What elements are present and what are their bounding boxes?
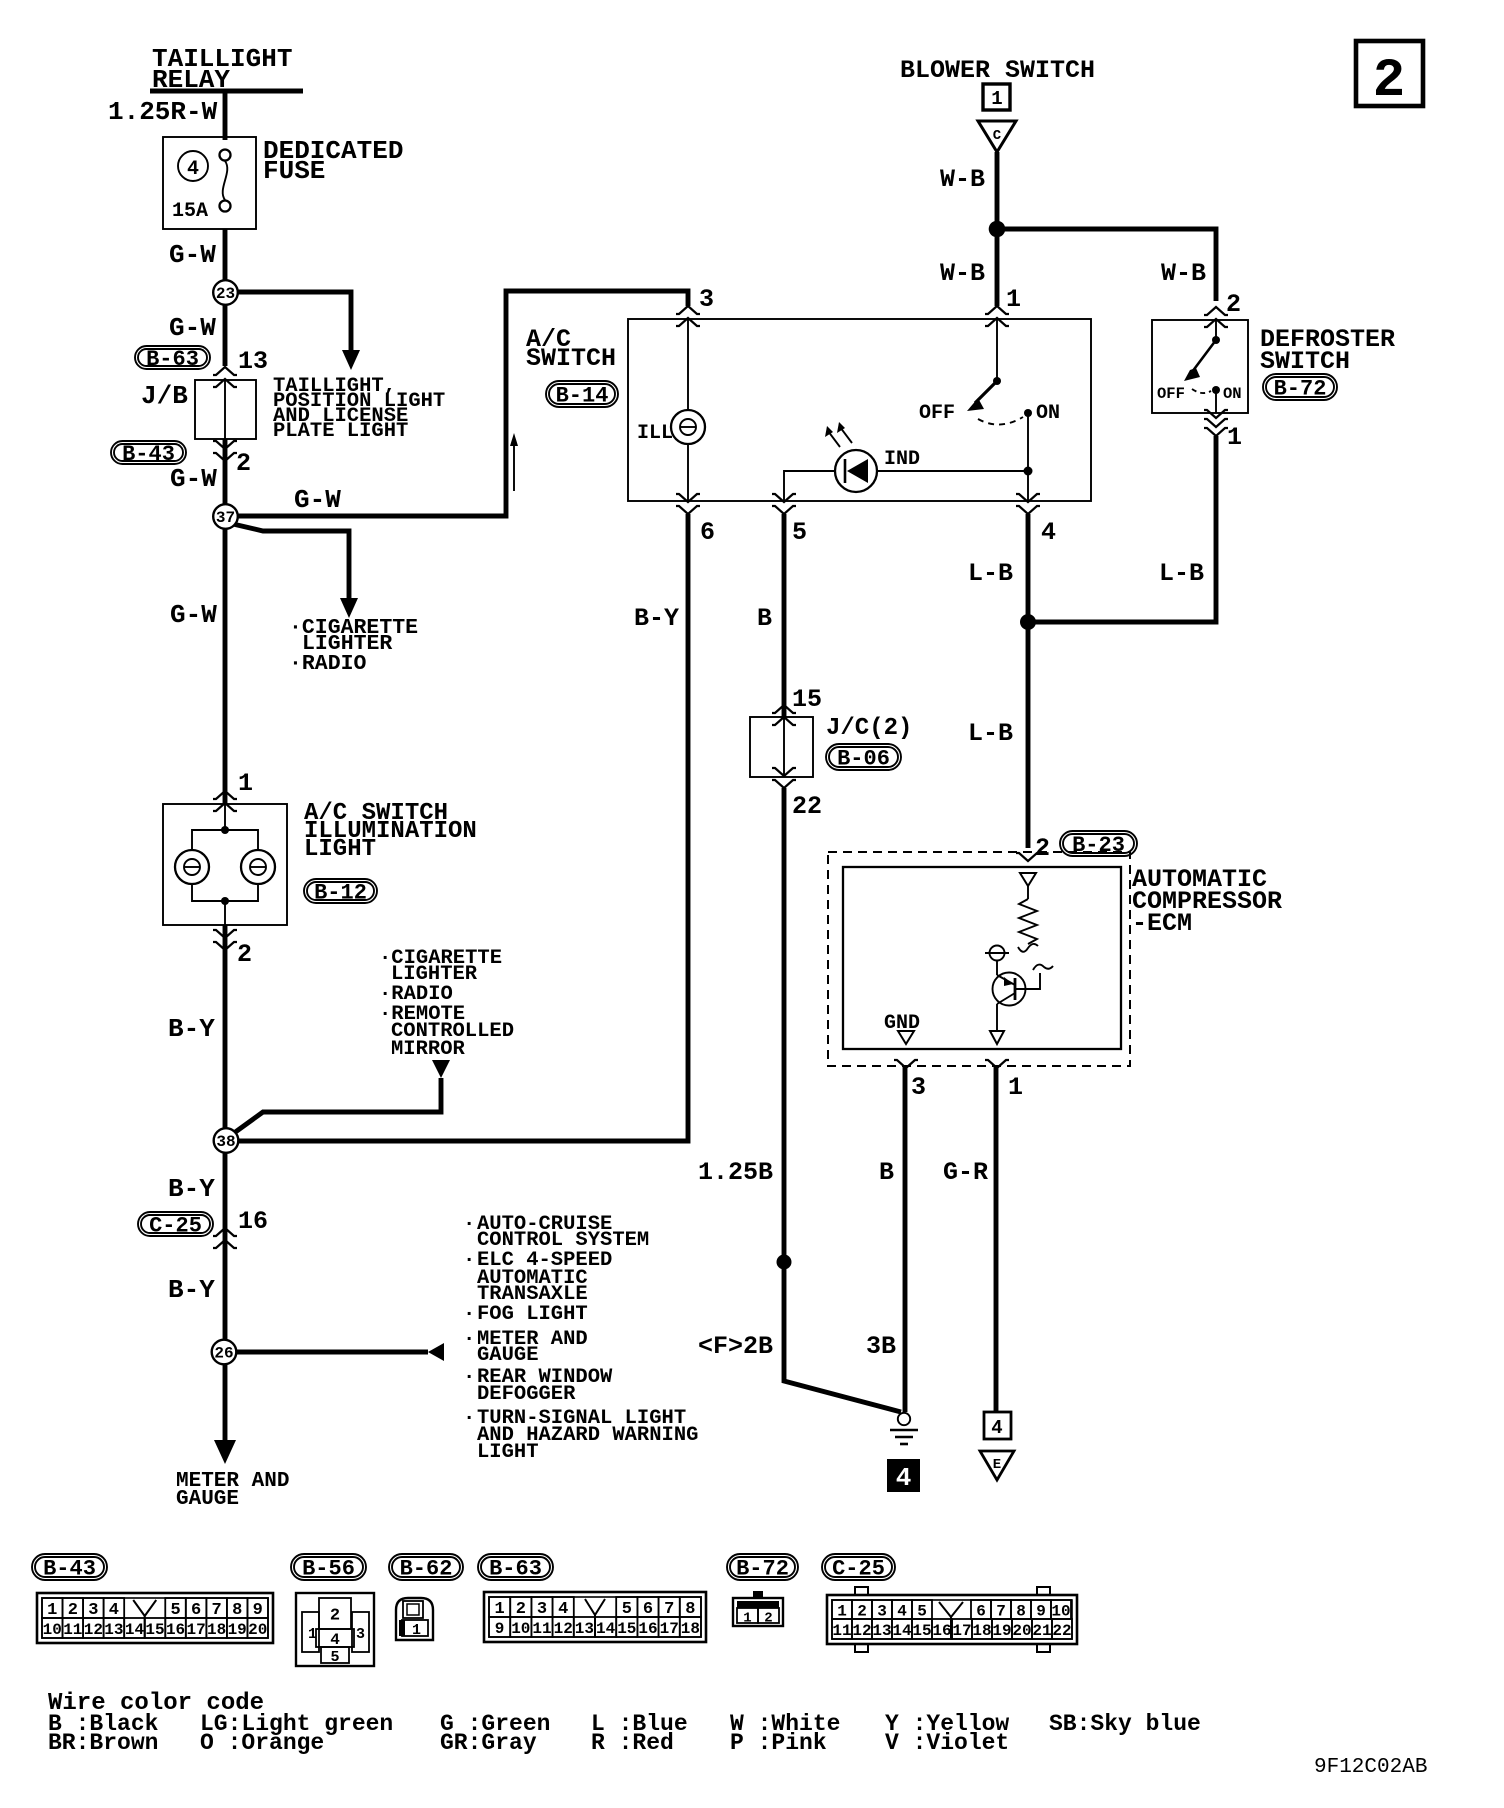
GND triangle	[898, 1031, 914, 1044]
svg-text:BLOWER SWITCH: BLOWER SWITCH	[900, 56, 1095, 85]
wire B-Y splice 38 to splice 26	[223, 1152, 228, 1340]
svg-text:38: 38	[216, 1133, 235, 1151]
svg-text:B-62: B-62	[400, 1557, 453, 1582]
svg-text:10: 10	[511, 1620, 530, 1638]
svg-text:14: 14	[596, 1620, 616, 1638]
wire 1.25B from J/C pin 22	[784, 788, 901, 1412]
svg-text:12: 12	[554, 1620, 573, 1638]
fuse element	[220, 150, 231, 161]
svg-text:2: 2	[1035, 834, 1050, 863]
connector tag B-63	[135, 346, 210, 369]
svg-text:OFF: OFF	[919, 402, 955, 425]
svg-text:4: 4	[991, 1417, 1002, 1439]
svg-text:E: E	[993, 1457, 1001, 1473]
svg-text:37: 37	[216, 509, 235, 527]
illumination lamp left	[175, 850, 209, 884]
branch wire to meter and gauge list	[236, 1350, 428, 1355]
svg-text:2: 2	[1226, 290, 1241, 319]
J/C pin 22 chevrons	[772, 768, 796, 776]
svg-text:13: 13	[238, 347, 268, 376]
A/C switch illumination light box	[163, 804, 287, 925]
arrow to taillight loads	[342, 350, 360, 370]
svg-text:O :Orange: O :Orange	[200, 1730, 324, 1756]
wire L-B defroster to junction	[1035, 436, 1216, 622]
svg-text:B-56: B-56	[302, 1557, 355, 1582]
junction block J/B	[195, 380, 256, 439]
defroster pin 1 chevrons	[1204, 410, 1228, 418]
svg-text:LIGHT: LIGHT	[477, 1441, 539, 1464]
svg-text:2: 2	[236, 449, 251, 478]
svg-text:12: 12	[852, 1622, 871, 1640]
svg-text:11: 11	[532, 1620, 551, 1638]
wire B-Y illumination to splice 38	[223, 925, 228, 1129]
svg-text:G-W: G-W	[170, 600, 217, 630]
defroster switch box B-72	[1152, 320, 1248, 413]
resistor break squiggle	[1018, 944, 1038, 952]
svg-text:1: 1	[991, 88, 1002, 110]
pin 5 chevrons	[772, 494, 796, 502]
svg-text:3: 3	[911, 1073, 926, 1102]
svg-text:1: 1	[1008, 1073, 1023, 1102]
svg-text:B-Y: B-Y	[168, 1275, 215, 1305]
pin 4 chevrons	[1016, 494, 1040, 502]
dashed arc OFF-ON	[978, 417, 1023, 425]
connector B-56 pinout	[296, 1593, 374, 1666]
svg-text:5: 5	[792, 518, 807, 547]
connector tag B-14	[546, 381, 618, 407]
svg-text:C-25: C-25	[832, 1557, 885, 1582]
ON contact dot	[1024, 409, 1032, 417]
svg-text:9F12C02AB: 9F12C02AB	[1314, 1756, 1427, 1779]
resistor	[1019, 899, 1037, 944]
wire B-Y pin 6 to splice 38	[239, 514, 688, 1141]
svg-text:L-B: L-B	[1159, 559, 1204, 588]
svg-text:21: 21	[1032, 1622, 1051, 1640]
connector tag C-25	[138, 1212, 213, 1236]
svg-text:12: 12	[84, 1621, 103, 1639]
svg-text:5: 5	[330, 1649, 339, 1666]
svg-text:17: 17	[952, 1622, 971, 1640]
svg-text:13: 13	[104, 1621, 123, 1639]
svg-text:4: 4	[897, 1603, 907, 1621]
connector tag B-63 (bottom)	[478, 1554, 553, 1580]
svg-text:G-W: G-W	[169, 240, 216, 270]
svg-text:FOG LIGHT: FOG LIGHT	[477, 1303, 588, 1326]
svg-text:·: ·	[463, 1366, 475, 1389]
connector tag B-12	[304, 879, 377, 903]
svg-text:2: 2	[857, 1603, 867, 1621]
svg-text:B-43: B-43	[122, 442, 175, 467]
svg-text:19: 19	[992, 1622, 1011, 1640]
connector tag B-06	[826, 744, 901, 770]
branch wire to taillight loads	[236, 292, 351, 352]
svg-text:G-W: G-W	[170, 464, 217, 494]
svg-text:16: 16	[238, 1207, 268, 1236]
svg-text:-ECM: -ECM	[1132, 909, 1192, 938]
svg-text:J/B: J/B	[141, 381, 188, 411]
pressure switch symbol	[990, 946, 1005, 961]
connector triangle C	[978, 121, 1016, 152]
wire G-W splice 23 to J/B	[223, 305, 228, 366]
svg-text:11: 11	[63, 1621, 82, 1639]
C-25 polarizing V	[939, 1602, 963, 1617]
connector tag B-72	[1263, 374, 1337, 400]
wire to meter and gauge	[223, 1364, 228, 1442]
wire B pin 5 to J/C	[782, 514, 787, 717]
svg-text:8: 8	[1016, 1603, 1026, 1621]
svg-text:6: 6	[976, 1603, 986, 1621]
splice 26	[212, 1340, 237, 1365]
svg-text:23: 23	[216, 285, 235, 303]
svg-text:3B: 3B	[866, 1332, 896, 1361]
defroster ON dot	[1212, 386, 1220, 394]
branch wire to remote mirror etc	[234, 1078, 441, 1133]
svg-text:B-Y: B-Y	[168, 1174, 215, 1204]
svg-text:10: 10	[1051, 1603, 1070, 1621]
junction dot LED to ON wire	[1024, 467, 1033, 476]
wire G-W J/B to splice 37	[223, 439, 228, 505]
svg-text:B-72: B-72	[1274, 377, 1327, 402]
svg-text:2: 2	[1373, 51, 1405, 112]
A/C switch lever	[975, 381, 997, 403]
svg-text:B-14: B-14	[556, 384, 609, 409]
connector tag B-72 (bottom)	[727, 1554, 798, 1580]
pin 13 chevrons	[213, 367, 237, 375]
ECM dashed outline	[828, 852, 1130, 1066]
svg-text:18: 18	[207, 1621, 226, 1639]
wire to resistor	[1027, 886, 1029, 899]
pin 1 chevrons	[213, 791, 237, 799]
connector tag B-43 (bottom)	[32, 1554, 107, 1580]
pin 6 chevrons	[676, 494, 700, 502]
svg-text:14: 14	[892, 1622, 912, 1640]
svg-text:26: 26	[214, 1345, 233, 1363]
svg-text:·RADIO: ·RADIO	[289, 652, 367, 676]
svg-text:1: 1	[1227, 423, 1242, 452]
svg-text:BR:Brown: BR:Brown	[48, 1730, 158, 1756]
wire ON down	[1215, 390, 1217, 413]
svg-text:16: 16	[638, 1620, 657, 1638]
svg-text:1: 1	[1006, 285, 1021, 314]
svg-text:18: 18	[681, 1620, 700, 1638]
connector B-62 pinout	[396, 1598, 433, 1640]
svg-text:ILL: ILL	[637, 422, 673, 445]
svg-text:LIGHT: LIGHT	[304, 836, 376, 863]
svg-text:·: ·	[463, 1328, 475, 1351]
svg-text:B-12: B-12	[314, 881, 367, 906]
svg-text:W-B: W-B	[940, 165, 985, 194]
svg-text:B-43: B-43	[43, 1557, 96, 1582]
connector tag B-23	[1060, 831, 1137, 856]
svg-text:GAUGE: GAUGE	[176, 1488, 239, 1511]
svg-text:·: ·	[463, 1303, 475, 1326]
svg-text:2: 2	[237, 940, 252, 969]
svg-text:ON: ON	[1036, 402, 1060, 425]
transistor base lead	[1015, 973, 1040, 989]
svg-text:MIRROR: MIRROR	[391, 1038, 466, 1061]
svg-text:G-W: G-W	[294, 485, 341, 515]
svg-text:10: 10	[43, 1621, 62, 1639]
LED triangle	[847, 459, 868, 483]
junction dot on 1.25B wire	[777, 1255, 792, 1270]
svg-text:16: 16	[932, 1622, 951, 1640]
svg-text:18: 18	[972, 1622, 991, 1640]
svg-text:1: 1	[412, 1622, 421, 1639]
svg-text:20: 20	[1012, 1622, 1031, 1640]
svg-text:11: 11	[832, 1622, 851, 1640]
svg-text:ON: ON	[1223, 385, 1242, 403]
svg-text:B-23: B-23	[1072, 833, 1125, 858]
svg-text:9: 9	[1036, 1603, 1046, 1621]
wire L-B A/C pin 4 down	[1026, 514, 1031, 848]
svg-text:3: 3	[699, 285, 714, 314]
wire G-R ECM pin 1 to E	[994, 1066, 999, 1412]
svg-text:16: 16	[166, 1621, 185, 1639]
svg-text:PLATE LIGHT: PLATE LIGHT	[273, 420, 408, 443]
ground symbol	[898, 1413, 910, 1425]
svg-text:SWITCH: SWITCH	[1260, 347, 1350, 376]
ILL lamp wire	[687, 319, 689, 410]
svg-text:17: 17	[660, 1620, 679, 1638]
connector C-25 pinout	[855, 1587, 868, 1595]
wire B ECM pin 3 to ground	[903, 1066, 908, 1412]
svg-text:W-B: W-B	[940, 259, 985, 288]
LED wires	[784, 471, 835, 501]
transistor Q1	[993, 973, 1026, 1006]
connector B-63 pinout	[484, 1592, 706, 1642]
svg-text:R :Red: R :Red	[591, 1730, 674, 1756]
svg-text:9: 9	[495, 1620, 505, 1638]
svg-text:GR:Gray: GR:Gray	[440, 1730, 537, 1756]
svg-text:GAUGE: GAUGE	[477, 1344, 539, 1367]
svg-text:L-B: L-B	[968, 719, 1013, 748]
svg-text:P :Pink: P :Pink	[730, 1730, 827, 1756]
connector tag C-25 (bottom)	[822, 1554, 895, 1580]
svg-text:4: 4	[896, 1463, 912, 1493]
LED bar	[844, 459, 847, 483]
splice 38	[214, 1128, 239, 1153]
wire 1.25R-W from taillight relay	[223, 91, 228, 140]
ECM pin 3 chevron	[894, 1060, 918, 1068]
page number box 2	[1356, 41, 1423, 106]
svg-text:17: 17	[186, 1621, 205, 1639]
B-63 polarizing V	[585, 1599, 605, 1615]
ECM input triangle	[1020, 873, 1036, 886]
taillight relay bus bar	[150, 89, 303, 94]
svg-text:B-63: B-63	[489, 1557, 542, 1582]
pin 3 chevrons	[676, 306, 700, 314]
svg-text:15: 15	[792, 685, 822, 714]
svg-text:·: ·	[463, 1249, 475, 1272]
svg-text:DEFOGGER: DEFOGGER	[477, 1383, 576, 1406]
defroster internal wire	[1215, 320, 1217, 340]
ground number box 4 (black)	[887, 1459, 920, 1492]
ILL lamp	[671, 410, 705, 444]
svg-text:<F>2B: <F>2B	[698, 1332, 773, 1361]
svg-text:1.25B: 1.25B	[698, 1158, 773, 1187]
pin 2 chevrons below illumination box	[213, 930, 237, 938]
switch wire pin 1 to pivot	[996, 319, 998, 381]
svg-text:IND: IND	[884, 448, 920, 471]
connector B-43 pinout	[37, 1593, 273, 1643]
pin 1 chevrons	[985, 306, 1009, 314]
svg-text:OFF: OFF	[1157, 385, 1185, 403]
svg-text:G-W: G-W	[169, 313, 216, 343]
ECM inner box	[843, 867, 1121, 1049]
wire pressure to transistor	[996, 960, 998, 975]
svg-text:5: 5	[917, 1603, 927, 1621]
B-23 pin 2 chevron	[1016, 853, 1040, 861]
svg-text:20: 20	[248, 1621, 267, 1639]
svg-text:J/C(2): J/C(2)	[826, 715, 912, 742]
svg-text:2: 2	[330, 1607, 340, 1626]
defroster pin 2 chevrons	[1204, 307, 1228, 315]
svg-text:W-B: W-B	[1161, 259, 1206, 288]
connector tag B-62	[389, 1554, 463, 1580]
svg-text:15: 15	[617, 1620, 636, 1638]
branch wire to cigarette lighter / radio	[233, 524, 349, 600]
defroster dashed arc	[1192, 389, 1211, 393]
svg-text:B-72: B-72	[736, 1557, 789, 1582]
branch wire G-W to A/C switch pin 3	[236, 291, 688, 516]
svg-text:C-25: C-25	[149, 1214, 202, 1239]
svg-text:1: 1	[238, 769, 253, 798]
svg-text:22: 22	[792, 792, 822, 821]
svg-text:22: 22	[1052, 1622, 1071, 1640]
ECM output triangle to pin 1	[990, 1031, 1004, 1044]
svg-text:6: 6	[700, 518, 715, 547]
wire G-W fuse to splice 23	[223, 229, 228, 281]
connector triangle E	[980, 1451, 1014, 1480]
svg-text:B-Y: B-Y	[634, 604, 679, 633]
svg-text:B: B	[879, 1158, 894, 1187]
defroster lever	[1192, 340, 1216, 372]
svg-text:B: B	[757, 604, 772, 633]
splice 37	[213, 504, 238, 529]
junction dot blower branch	[989, 221, 1006, 238]
svg-text:15A: 15A	[172, 200, 208, 223]
wire ON contact down to pin 4	[1027, 413, 1029, 501]
branch wire W-B to defroster switch	[997, 229, 1216, 301]
wire G-W splice 37 to illumination light	[223, 529, 228, 804]
fuse number circle 4	[178, 151, 208, 181]
A/C switch box B-14	[628, 319, 1091, 501]
svg-text:G-R: G-R	[943, 1158, 988, 1187]
connector tag B-56	[291, 1554, 366, 1580]
page link box 4	[984, 1412, 1011, 1439]
B-43 polarizing V	[133, 1600, 156, 1616]
svg-text:13: 13	[575, 1620, 594, 1638]
connector B-72 pinout	[753, 1591, 763, 1599]
splice 23	[213, 280, 238, 305]
svg-text:FUSE: FUSE	[263, 156, 325, 186]
svg-text:·: ·	[463, 1407, 475, 1430]
LED emission arrows	[828, 431, 840, 447]
svg-text:3: 3	[356, 1626, 365, 1643]
J/C(2) pin 15 chevrons	[772, 705, 796, 713]
svg-text:1: 1	[837, 1603, 847, 1621]
wire W-B blower switch down	[995, 152, 1000, 306]
junction dot L-B	[1020, 614, 1036, 630]
svg-text:B-Y: B-Y	[168, 1014, 215, 1044]
page link box 1	[983, 84, 1010, 110]
wire through J/C	[783, 717, 785, 777]
svg-text:1: 1	[743, 1611, 751, 1627]
svg-text:4: 4	[187, 158, 199, 181]
svg-text:7: 7	[996, 1603, 1006, 1621]
svg-text:B-63: B-63	[146, 347, 199, 372]
svg-text:SB:Sky blue: SB:Sky blue	[1049, 1711, 1201, 1737]
direction arrow inside loop	[513, 442, 515, 491]
svg-text:3: 3	[877, 1603, 887, 1621]
svg-text:1.25R-W: 1.25R-W	[108, 97, 218, 127]
illumination internal wiring	[224, 804, 226, 830]
svg-text:19: 19	[228, 1621, 247, 1639]
svg-text:13: 13	[872, 1622, 891, 1640]
svg-text:15: 15	[912, 1622, 931, 1640]
svg-text:15: 15	[145, 1621, 164, 1639]
illumination lamp right	[241, 850, 275, 884]
wire through J/B	[224, 380, 226, 439]
svg-text:L-B: L-B	[968, 559, 1013, 588]
svg-text:V :Violet: V :Violet	[885, 1730, 1009, 1756]
connector tag B-43	[111, 441, 186, 464]
svg-text:C: C	[993, 128, 1002, 144]
svg-text:SWITCH: SWITCH	[526, 344, 616, 373]
pin 2 chevrons below J/B	[213, 441, 237, 449]
svg-text:B-06: B-06	[837, 747, 890, 772]
svg-text:4: 4	[1041, 518, 1056, 547]
joint connector J/C(2) box	[750, 717, 813, 777]
svg-text:14: 14	[125, 1621, 145, 1639]
svg-text:·: ·	[463, 1213, 475, 1236]
IND LED circle	[835, 450, 877, 492]
ECM pin 1 chevron	[985, 1060, 1009, 1068]
dedicated fuse box	[163, 137, 256, 229]
svg-text:2: 2	[764, 1611, 772, 1627]
